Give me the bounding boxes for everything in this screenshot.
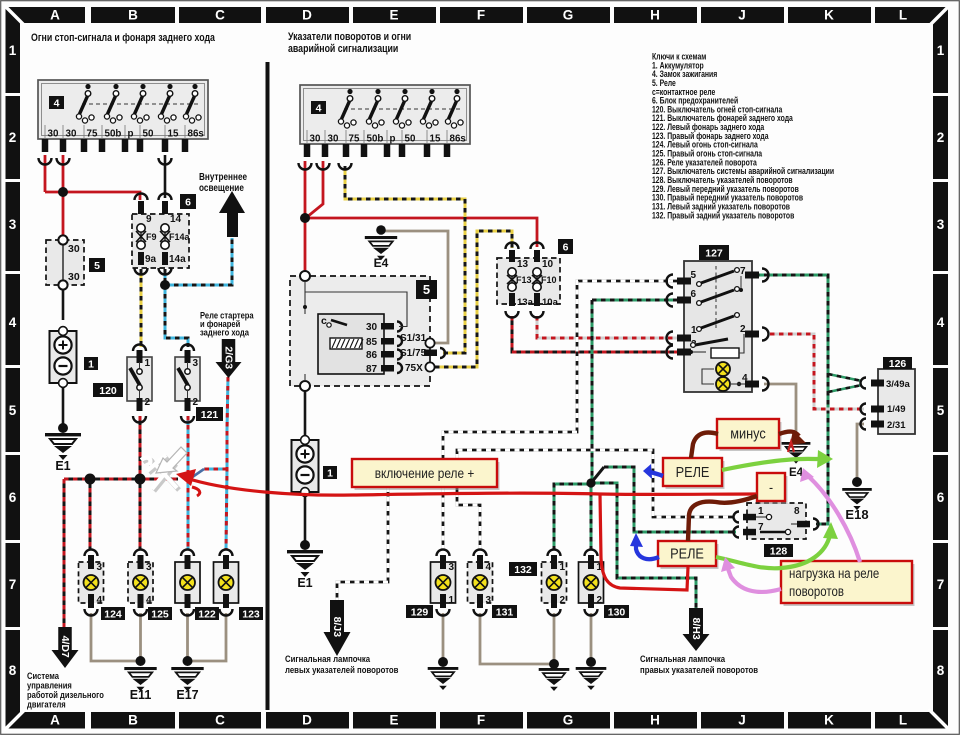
svg-text:аварийной сигнализации: аварийной сигнализации (288, 43, 398, 55)
svg-text:F10: F10 (541, 275, 557, 285)
svg-text:30: 30 (366, 322, 378, 333)
svg-text:A: A (50, 8, 60, 23)
svg-text:15: 15 (430, 134, 441, 145)
svg-text:50: 50 (143, 129, 154, 140)
svg-text:10: 10 (542, 259, 554, 270)
128 pin 1 (734, 512, 739, 523)
relay internal links (304, 281, 306, 314)
svg-text:1: 1 (691, 325, 697, 336)
wire black battery to ground E1 (62, 384, 65, 428)
svg-text:правых указателей поворотов: правых указателей поворотов (640, 664, 758, 675)
127 pin 6 (667, 294, 673, 307)
svg-text:1: 1 (145, 358, 151, 369)
chip 127 (699, 245, 729, 260)
svg-text:14: 14 (170, 214, 182, 225)
svg-text:121: 121 (201, 409, 219, 421)
wire brown 127 pin4 to ground E4 (764, 384, 796, 440)
svg-text:9: 9 (146, 214, 152, 225)
svg-text:K: K (824, 8, 834, 23)
battery 1 left (50, 331, 77, 383)
svg-text:D: D (302, 713, 312, 728)
svg-text:10a: 10a (542, 297, 559, 308)
svg-text:Указатели поворотов и огни: Указатели поворотов и огни (288, 31, 411, 43)
wire red-black switch120 to junction row (139, 416, 142, 479)
wire green-black jog to 128 pin7 (591, 467, 604, 483)
svg-text:5: 5 (691, 270, 697, 281)
wire yellow-black pin75 to relay S1/75 (345, 166, 465, 353)
svg-text:4/D7: 4/D7 (59, 636, 71, 658)
svg-text:6: 6 (937, 490, 945, 505)
wire cyan-black to interior light arrow (165, 238, 232, 285)
svg-text:4: 4 (97, 595, 103, 606)
svg-text:8: 8 (937, 663, 945, 678)
svg-text:1/49: 1/49 (887, 404, 906, 415)
127 internals (715, 266, 717, 330)
fuse F9 (135, 194, 148, 201)
svg-text:нагрузка на реле: нагрузка на реле (789, 566, 879, 581)
svg-text:4: 4 (937, 315, 945, 330)
ground E11 (136, 656, 146, 666)
svg-text:75: 75 (87, 129, 98, 140)
wire red to relay 5 (304, 218, 307, 273)
ground E18 (852, 477, 862, 487)
wire red-black to lamp 124 (89, 479, 92, 550)
node green junction (586, 478, 595, 487)
wire black battery right to ground E1 (304, 496, 307, 545)
svg-text:86s: 86s (450, 134, 467, 145)
lamp 131 (468, 562, 493, 603)
svg-text:2: 2 (560, 595, 566, 606)
svg-text:E18: E18 (845, 507, 868, 522)
svg-text:L: L (899, 8, 907, 23)
wire black-dash lamp129 to 127 pin5 (443, 281, 677, 550)
svg-text:3: 3 (97, 562, 103, 573)
arrow 4/D7 diesel control (58, 627, 72, 650)
callout минус (720, 422, 782, 451)
svg-text:4: 4 (54, 97, 60, 109)
frame corner miter slits (4, 5, 26, 27)
svg-text:H: H (650, 713, 660, 728)
white arrow near junction (156, 447, 187, 473)
127 resistor (711, 348, 739, 358)
red annotation branch to lamps area (600, 494, 688, 590)
svg-text:c: c (321, 315, 327, 327)
wire green-black junction to lamp 132 (554, 484, 591, 550)
svg-text:85: 85 (366, 337, 378, 348)
svg-text:132. Правый задний указатель п: 132. Правый задний указатель поворотов (652, 210, 794, 220)
svg-text:50b: 50b (105, 129, 122, 140)
chip 124 (101, 607, 125, 620)
wire red right block pin30b (307, 161, 323, 217)
component 5 connector left (46, 240, 84, 285)
fuse F13 (506, 243, 519, 250)
ignition switch block 4 right (300, 85, 470, 144)
svg-text:1: 1 (449, 595, 455, 606)
wire yellow-black fuse9a to switch 120 (140, 269, 143, 347)
128 pin 7 (734, 527, 739, 538)
127 pin 5 (667, 275, 673, 288)
chip 120 (93, 383, 123, 397)
maroon annotation minus left piece (691, 432, 718, 458)
svg-text:1: 1 (937, 43, 945, 58)
svg-text:75X: 75X (405, 363, 423, 374)
svg-text:заднего хода: заднего хода (200, 327, 249, 338)
svg-text:4: 4 (146, 595, 152, 606)
svg-text:B: B (128, 713, 138, 728)
wire tan lamp125 to E11 (139, 613, 142, 661)
hazard switch 127 box (684, 261, 752, 392)
svg-text:131: 131 (496, 606, 514, 618)
svg-text:4: 4 (9, 315, 17, 330)
chip 126 (883, 357, 912, 369)
lamp 124 (79, 562, 104, 603)
svg-text:13a: 13a (517, 297, 534, 308)
svg-text:1: 1 (88, 358, 94, 370)
svg-text:Огни стоп-сигнала и фонаря зад: Огни стоп-сигнала и фонаря заднего хода (31, 32, 215, 44)
wire tan lamp132 to ground (553, 613, 556, 664)
svg-text:Сигнальная лампочка: Сигнальная лампочка (640, 653, 725, 664)
wire red right block pin30a down (304, 161, 307, 218)
wire red-black to lamp 125 (139, 479, 142, 550)
svg-text:1: 1 (327, 467, 333, 479)
svg-text:5: 5 (94, 260, 100, 272)
svg-text:p: p (390, 134, 396, 145)
svg-text:РЕЛЕ: РЕЛЕ (676, 464, 710, 480)
wire red-black fuse13a to 127 pin3 (512, 316, 677, 352)
battery 1 right (292, 440, 319, 492)
chip 128 (764, 544, 793, 557)
svg-text:3: 3 (449, 562, 455, 573)
svg-text:2: 2 (597, 595, 603, 606)
wire green-black 127 pin7 to 126 and 128 pin8 (755, 275, 828, 524)
chip 132 (509, 562, 537, 576)
svg-text:8/H3: 8/H3 (690, 618, 702, 640)
chip 123 (239, 607, 263, 620)
svg-text:E4: E4 (374, 256, 389, 270)
chip 129 (406, 605, 433, 618)
svg-text:6: 6 (185, 196, 191, 208)
node junction row dots (85, 474, 96, 485)
svg-text:H: H (650, 8, 660, 23)
reference frame black bars (6, 7, 85, 23)
svg-text:C: C (215, 8, 225, 23)
blue annotation arrow lower (636, 543, 659, 559)
fuse F10 (531, 243, 544, 250)
ground under 129 (438, 657, 448, 667)
svg-text:50b: 50b (367, 134, 384, 145)
svg-text:13: 13 (517, 259, 529, 270)
svg-text:C: C (215, 713, 225, 728)
svg-text:F: F (477, 8, 485, 23)
wire red-cyan switch121 to lamp 122 (187, 416, 190, 550)
svg-text:2: 2 (9, 130, 17, 145)
svg-text:127: 127 (705, 247, 723, 259)
svg-text:включение реле +: включение реле + (375, 465, 475, 481)
wire red left block pin30b (62, 155, 65, 192)
svg-text:J: J (738, 713, 746, 728)
svg-text:3: 3 (146, 562, 152, 573)
chip 130 (604, 605, 629, 618)
ground under 130 (586, 657, 596, 667)
wire cyan-black fuse14a node (164, 269, 167, 285)
lamp 125 (128, 562, 153, 603)
callout РЕЛЕ upper (666, 461, 725, 489)
node cyan junction (160, 280, 170, 290)
svg-text:6: 6 (9, 490, 17, 505)
wire black pin15 to fuse F14 (164, 155, 167, 198)
svg-text:РЕЛЕ: РЕЛЕ (670, 546, 704, 562)
blue annotation arrow upper (650, 472, 663, 476)
lamp 130 (579, 562, 604, 603)
wire red-white 127 pin2 to 126 1/49 (770, 334, 864, 409)
svg-text:3: 3 (937, 217, 945, 232)
wire red to fuse F9 (45, 192, 140, 200)
turn switch 128 box (747, 503, 806, 539)
126 terminal 2/31 (861, 419, 867, 430)
wire tan lamp129 to ground (442, 613, 445, 662)
wire green-black junction to lamp 130 (590, 483, 593, 550)
fuse block 6 left (132, 214, 189, 268)
wire black comp5 to battery (62, 288, 65, 320)
chip 6 left (180, 194, 196, 209)
svg-text:1: 1 (758, 506, 764, 517)
svg-text:125: 125 (151, 608, 169, 620)
svg-text:двигателя: двигателя (27, 699, 66, 710)
svg-text:87: 87 (366, 364, 378, 375)
svg-text:Сигнальная лампочка: Сигнальная лампочка (285, 653, 370, 664)
svg-text:124: 124 (104, 608, 122, 620)
svg-text:50: 50 (405, 134, 416, 145)
svg-text:минус: минус (730, 426, 766, 442)
ground E1 right (300, 540, 310, 550)
svg-text:2/31: 2/31 (887, 420, 906, 431)
chip 122 (195, 607, 219, 620)
maroon annotation minus wire trace (688, 496, 757, 541)
svg-text:14a: 14a (169, 254, 186, 265)
ground under 132 (549, 659, 559, 669)
svg-text:E1: E1 (55, 459, 70, 473)
interior light arrow (227, 211, 238, 237)
wire red-white fuse10a to 127 pin1 (537, 316, 677, 338)
svg-text:F14a: F14a (169, 232, 191, 242)
svg-text:30: 30 (68, 271, 80, 283)
relay inner box (318, 314, 384, 374)
red annotation line from callout to junction (186, 478, 757, 495)
chip 121 (196, 407, 223, 421)
svg-text:A: A (50, 713, 60, 728)
svg-text:L: L (899, 713, 907, 728)
svg-text:E17: E17 (176, 688, 198, 702)
relay 5 dashed box right (290, 276, 430, 386)
svg-text:5: 5 (937, 403, 945, 418)
svg-text:3/49a: 3/49a (886, 379, 910, 390)
svg-text:4: 4 (486, 562, 492, 573)
wire brown 126 2/31 to ground E18 (857, 424, 864, 482)
svg-text:5: 5 (9, 403, 17, 418)
svg-text:86: 86 (366, 350, 378, 361)
lamp 123 (214, 562, 239, 603)
wire black-dash lamp131 to 128 pin1 (457, 450, 736, 550)
callout minus small (760, 476, 788, 504)
wire red battery feed left block pin30a (44, 155, 47, 192)
svg-text:E11: E11 (130, 688, 152, 702)
svg-text:левых указателей поворотов: левых указателей поворотов (285, 664, 398, 675)
svg-text:6: 6 (563, 241, 569, 253)
svg-text:3: 3 (486, 595, 492, 606)
126 terminal 3/49a (861, 378, 867, 389)
switch 121 (175, 357, 200, 401)
svg-text:3: 3 (193, 358, 199, 369)
wire red to component 5 (62, 192, 65, 237)
svg-text:130: 130 (608, 606, 626, 618)
wire black-dash callout to arrow 8/J3 (337, 487, 388, 600)
svg-text:2/G3: 2/G3 (223, 346, 235, 369)
ground E4 (376, 225, 386, 235)
pink annotation to E4 (808, 476, 860, 562)
wire green-black junction to arrow 8/H3 (591, 483, 696, 608)
svg-text:освещение: освещение (199, 182, 244, 193)
white correction marks scissors (143, 457, 179, 491)
svg-text:30: 30 (48, 129, 59, 140)
svg-text:122: 122 (198, 608, 216, 620)
callout нагрузка на реле поворотов (784, 564, 915, 606)
svg-text:G: G (563, 713, 574, 728)
arcs under left ignition pins (39, 158, 52, 165)
svg-text:8: 8 (9, 663, 17, 678)
svg-text:7: 7 (937, 577, 945, 592)
wire tan lamp123 to E17 (190, 613, 226, 661)
svg-text:E1: E1 (297, 576, 312, 590)
svg-text:2: 2 (193, 397, 199, 408)
svg-text:126: 126 (889, 358, 907, 370)
node junction left red (58, 187, 68, 197)
ground E17 (183, 656, 193, 666)
chip 125 (148, 607, 172, 620)
arrow 8/H3 (689, 608, 703, 634)
svg-text:30: 30 (328, 134, 339, 145)
wire green-black 127 pin6 down to junction (592, 299, 677, 302)
relay 126 box (878, 369, 915, 434)
chip 6 right (558, 239, 573, 254)
fuse F14a (159, 194, 172, 201)
126 terminal 1/49 (861, 404, 867, 415)
wire red-cyan branch to junction (204, 468, 227, 471)
127 pin 1 (667, 332, 673, 345)
svg-text:120: 120 (99, 385, 117, 397)
pink annotation to реле lower (727, 566, 781, 592)
127 indicator bulbs (716, 362, 730, 376)
svg-text:p: p (128, 129, 134, 140)
svg-text:J: J (738, 8, 746, 23)
wire tan lamp131 to ground (480, 613, 554, 664)
svg-text:9a: 9a (145, 254, 157, 265)
svg-text:E: E (389, 713, 398, 728)
svg-text:86s: 86s (188, 129, 205, 140)
svg-text:K: K (824, 713, 834, 728)
wire tan lamp124 to E11 (91, 613, 138, 661)
svg-text:B: B (128, 8, 138, 23)
wire red bus to fuse F10 (305, 218, 537, 247)
svg-text:4: 4 (316, 102, 322, 114)
fuse block 6 right (497, 258, 560, 304)
svg-text:7: 7 (9, 577, 17, 592)
svg-text:128: 128 (770, 545, 788, 557)
svg-text:1: 1 (9, 43, 17, 58)
wire black relay5 to battery right (304, 390, 307, 440)
wire red-cyan from arrow 2/G3 to lamp 123 (226, 377, 228, 550)
green annotation relay to E4 (722, 459, 826, 470)
svg-text:G: G (563, 8, 574, 23)
callout включение реле + (355, 462, 500, 490)
node junction right red (300, 213, 310, 223)
svg-text:S1/31: S1/31 (400, 333, 427, 344)
ground E1 left (58, 423, 68, 433)
maroon annotation minus to ground E4 (779, 432, 799, 436)
svg-text:1: 1 (560, 562, 566, 573)
svg-text:поворотов: поворотов (789, 584, 844, 599)
svg-text:132: 132 (514, 564, 532, 576)
chip 131 (492, 605, 517, 618)
svg-text:15: 15 (168, 129, 179, 140)
wire yellow-black 75X to fuse F13 (435, 231, 512, 367)
svg-text:5: 5 (423, 282, 430, 297)
lamp 129 (431, 562, 456, 603)
chip 5 left (89, 258, 105, 272)
switch 120 (127, 357, 152, 401)
arrow 8/J3 (330, 600, 344, 632)
svg-text:F13: F13 (516, 275, 532, 285)
svg-text:6: 6 (691, 289, 697, 300)
wire red-black to arrow 4/D7 (63, 479, 66, 627)
svg-text:123: 123 (242, 608, 260, 620)
svg-text:S1/75: S1/75 (400, 348, 427, 359)
svg-text:F9: F9 (146, 232, 157, 242)
svg-text:D: D (302, 8, 312, 23)
svg-text:8/J3: 8/J3 (331, 617, 343, 638)
svg-text:3: 3 (9, 217, 17, 232)
svg-text:30: 30 (68, 243, 80, 255)
svg-text:8: 8 (794, 506, 800, 517)
wire brown E4 to relay S1/31 (381, 231, 448, 343)
svg-text:30: 30 (66, 129, 77, 140)
svg-text:2: 2 (937, 130, 945, 145)
svg-text:Внутреннее: Внутреннее (199, 171, 247, 182)
wire red-black junction row horizontal (64, 478, 178, 481)
chip 5 right (416, 280, 437, 299)
127 pin 3 (667, 346, 673, 359)
svg-text:75: 75 (349, 134, 360, 145)
arcs under right ignition pins (299, 163, 312, 170)
svg-text:129: 129 (411, 606, 429, 618)
ground E4 second (782, 442, 811, 445)
svg-text:-: - (769, 479, 773, 495)
svg-text:F: F (477, 713, 485, 728)
wire tan lamp122 to E17 (186, 613, 189, 661)
wire cyan-black to switch 121 (165, 285, 188, 347)
lamp 122 (175, 562, 200, 603)
wire tan lamp130 to ground (590, 613, 593, 662)
green annotation load to 128 pin8 (716, 557, 781, 568)
svg-text:2: 2 (145, 397, 151, 408)
ignition switch block 4 left (38, 80, 208, 139)
callout РЕЛЕ lower (661, 544, 719, 569)
lamp 132 (542, 562, 567, 603)
svg-text:30: 30 (310, 134, 321, 145)
svg-text:E: E (389, 8, 398, 23)
section divider (266, 62, 270, 710)
